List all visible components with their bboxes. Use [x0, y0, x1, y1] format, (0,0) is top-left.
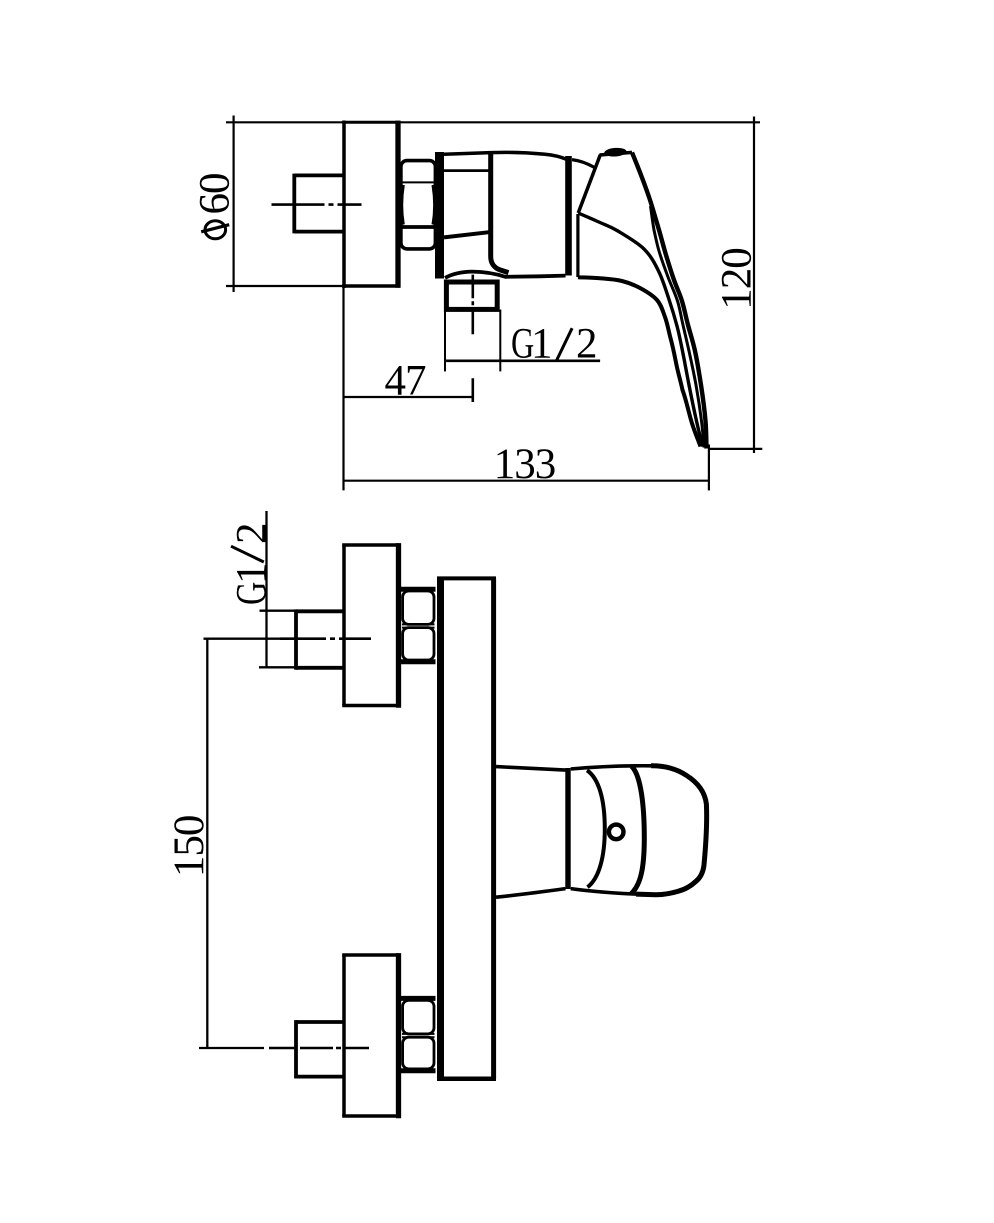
svg-text:60: 60: [192, 174, 239, 215]
svg-text:133: 133: [494, 441, 556, 488]
svg-text:47: 47: [385, 358, 427, 405]
svg-text:1: 1: [531, 321, 552, 368]
svg-text:150: 150: [166, 816, 213, 878]
svg-text:G: G: [228, 582, 276, 605]
svg-text:120: 120: [714, 248, 761, 310]
svg-text:2: 2: [576, 321, 597, 368]
svg-text:1: 1: [229, 564, 276, 585]
svg-text:2: 2: [229, 524, 276, 545]
